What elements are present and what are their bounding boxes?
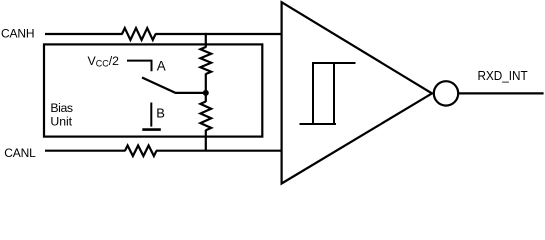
svg-text:A: A <box>157 59 166 74</box>
wire CANL right segment <box>156 150 282 152</box>
op-amp U1 (Schmitt-trigger comparator triangle) <box>282 2 432 183</box>
svg-text:Bias: Bias <box>50 101 73 115</box>
resistor R3 (upper bias divider, vertical zigzag) <box>200 47 211 74</box>
wire output RXD_INT <box>459 92 544 94</box>
wire CANL left segment <box>45 150 125 152</box>
wire CANH left segment <box>45 33 123 35</box>
switch contact A (wire from VCC/2) <box>127 61 152 72</box>
svg-text:RXD_INT: RXD_INT <box>478 68 528 83</box>
svg-text:VCC/2: VCC/2 <box>88 54 120 69</box>
resistor R1 (CANH series, horizontal zigzag) <box>122 28 156 40</box>
switch S1 arm <box>142 78 204 93</box>
switch contact B <box>150 103 152 127</box>
svg-text:Unit: Unit <box>50 115 72 129</box>
wire R4 top lead <box>205 93 207 102</box>
wire R3 top lead <box>205 33 207 48</box>
wire R3 bottom lead <box>205 74 207 93</box>
inversion bubble <box>434 81 458 105</box>
svg-text:CANL: CANL <box>4 146 36 160</box>
wire R4 bottom lead <box>205 130 207 151</box>
ground <box>142 128 161 131</box>
junction node (bias divider midpoint) <box>203 90 209 96</box>
resistor R2 (CANL series, horizontal zigzag) <box>125 146 157 157</box>
svg-text:CANH: CANH <box>1 26 35 40</box>
resistor R4 (lower bias divider, vertical zigzag) <box>200 102 211 131</box>
svg-text:B: B <box>156 106 165 121</box>
wire CANH right segment <box>155 33 281 35</box>
Bias Unit box <box>44 44 262 136</box>
hysteresis symbol <box>300 63 356 124</box>
